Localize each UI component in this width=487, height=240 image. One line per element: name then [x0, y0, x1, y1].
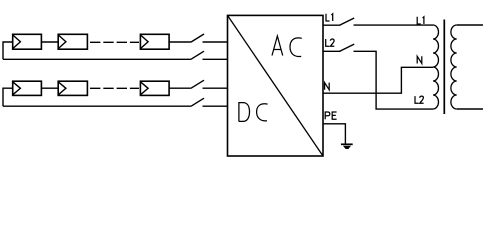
wire string2 left loop	[3, 88, 13, 106]
dashed wire string2	[90, 87, 139, 89]
wire string2 return	[3, 105, 191, 107]
PV6 arrow	[140, 82, 148, 95]
PV1 arrow	[13, 35, 21, 49]
wire S1 to inverter	[203, 41, 228, 43]
PV3 arrow	[140, 35, 148, 49]
transformer T1 secondary winding	[451, 25, 457, 109]
switch S2 blade	[191, 51, 204, 59]
PV module PV1	[13, 34, 42, 49]
switch S4 blade	[191, 98, 204, 106]
switch S1 blade	[191, 34, 204, 42]
PV5 arrow	[58, 82, 66, 95]
wire L2 to switch	[323, 50, 340, 52]
PV module PV2	[58, 34, 87, 49]
label L2 inverter output	[326, 39, 335, 46]
PV module PV4	[13, 81, 42, 95]
PV module PV5	[58, 81, 87, 95]
label PE inverter output	[325, 112, 336, 119]
wire PE	[323, 124, 345, 144]
wire secondary top lead	[457, 24, 483, 26]
label N transformer tap	[417, 56, 422, 63]
wire PV4 to PV5	[41, 87, 58, 89]
wire S4 to inverter	[203, 105, 228, 107]
PV module PV6	[140, 81, 169, 95]
switch S5 blade	[340, 18, 355, 25]
inverter U1 box	[228, 15, 324, 156]
transformer T1 primary winding	[433, 25, 439, 109]
wire string1 left loop	[3, 42, 13, 59]
transformer T1 core	[443, 20, 445, 115]
label AC	[272, 36, 302, 57]
label L1 inverter output	[326, 14, 333, 21]
wire PV1 to PV2	[41, 41, 58, 43]
PV2 arrow	[58, 35, 66, 49]
ground symbol	[341, 144, 353, 148]
wire L1 to switch	[323, 24, 340, 26]
wire S2 to inverter	[203, 58, 228, 60]
PV4 arrow	[13, 82, 21, 95]
wire string1 return	[3, 58, 191, 60]
label L1 transformer tap	[417, 17, 424, 24]
wire N to transformer	[323, 67, 433, 93]
wire secondary bottom lead	[457, 108, 483, 110]
PV module PV3	[140, 34, 169, 49]
label DC	[239, 103, 268, 122]
wire PV3 to switch	[169, 41, 191, 43]
wire L1 to transformer	[354, 24, 434, 26]
switch S6 blade	[340, 44, 355, 51]
label N inverter output	[325, 83, 330, 90]
label L2 transformer tap	[415, 96, 424, 103]
inverter U1 diagonal	[228, 15, 324, 156]
wire L2 to transformer	[354, 51, 434, 109]
dashed wire string1	[90, 41, 139, 43]
wire PV6 to switch	[169, 87, 191, 89]
switch S3 blade	[191, 80, 204, 88]
wire S3 to inverter	[203, 87, 228, 89]
